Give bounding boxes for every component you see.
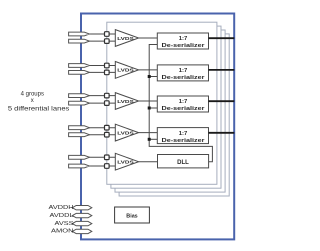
group rectangle 1 (front)	[107, 22, 217, 184]
pin CKp	[105, 155, 110, 160]
pin A4n	[105, 132, 110, 137]
junction dot at de-serializer 3 clock tap	[148, 107, 151, 110]
LVDS receiver U4	[115, 124, 138, 141]
svg-text:LVDS: LVDS	[117, 36, 134, 42]
pin A2p	[105, 63, 110, 68]
power pad AMON	[72, 229, 92, 233]
DLL	[158, 155, 209, 168]
wire pad A3p to LVDS A3 input	[88, 95, 115, 97]
svg-text:5 differential lanes: 5 differential lanes	[8, 106, 70, 112]
wire pad A4p to LVDS A4 input	[88, 127, 115, 129]
svg-text:De-serializer: De-serializer	[162, 106, 206, 112]
Bias block	[115, 207, 150, 223]
power pad AVSS	[72, 221, 92, 225]
clock stub to de-serializer 4	[149, 138, 157, 140]
svg-text:De-serializer: De-serializer	[162, 43, 206, 49]
svg-text:1:7: 1:7	[179, 36, 188, 42]
LVDS receiver U2	[115, 62, 138, 79]
bus line from de-serializer 2	[208, 69, 234, 71]
wire pad A4n to LVDS A4 input	[88, 134, 115, 136]
pin CKn	[105, 164, 110, 169]
pin A2n	[105, 70, 110, 75]
LVDS receiver U1	[115, 30, 138, 47]
svg-text:Bias: Bias	[126, 214, 137, 220]
svg-text:LVDS: LVDS	[117, 160, 134, 166]
clock distribution net from DLL output	[149, 45, 212, 162]
clock stub to de-serializer 3	[149, 107, 157, 109]
power pad AVDDH	[72, 206, 92, 210]
wire pad A3n to LVDS A3 input	[88, 102, 115, 104]
pad A3p	[69, 94, 90, 98]
wire pad A2p to LVDS A2 input	[88, 65, 115, 67]
de-serializer 1	[157, 33, 208, 49]
wire pad A1p to LVDS A1 input	[88, 33, 115, 35]
de-serializer 2	[157, 65, 208, 81]
pad A2p	[69, 64, 90, 68]
svg-text:LVDS: LVDS	[117, 130, 134, 136]
de-serializer 4	[157, 128, 208, 144]
bus line from de-serializer 3	[208, 100, 234, 102]
wire pad CKn to LVDS clock input	[88, 165, 115, 167]
power pad AVDDL	[72, 213, 92, 217]
pin A3p	[105, 93, 110, 98]
svg-text:AMON: AMON	[51, 229, 74, 235]
pad CKp	[69, 155, 90, 159]
svg-text:De-serializer: De-serializer	[162, 138, 206, 144]
wire LVDS clock output to DLL	[139, 161, 158, 163]
LVDS receiver U3	[115, 93, 138, 110]
junction dot at de-serializer 2 clock tap	[148, 75, 151, 78]
bus line from de-serializer 4	[208, 132, 234, 134]
wire pad A2n to LVDS A2 input	[88, 71, 115, 73]
svg-text:AVSS: AVSS	[55, 221, 74, 227]
svg-text:4 groups: 4 groups	[21, 91, 44, 97]
svg-text:1:7: 1:7	[179, 99, 188, 105]
pin A3n	[105, 101, 110, 106]
wire pad CKp to LVDS clock input	[88, 156, 115, 158]
wire LVDS A2 output to de-serializer 2	[139, 69, 158, 71]
svg-text:x: x	[31, 98, 34, 104]
group rectangle 2	[111, 26, 221, 188]
pad A1p	[69, 32, 90, 36]
wire LVDS A4 output to de-serializer 4	[139, 132, 158, 134]
wire pad A1n to LVDS A1 input	[88, 40, 115, 42]
bus line from de-serializer 1	[208, 37, 234, 39]
de-serializer 3	[157, 96, 208, 112]
wire LVDS A3 output to de-serializer 3	[139, 100, 158, 102]
svg-text:LVDS: LVDS	[117, 99, 134, 105]
pad A1n	[69, 39, 90, 43]
pad A4p	[69, 126, 90, 130]
pin A1n	[105, 39, 110, 44]
pin A1p	[105, 32, 110, 37]
svg-text:De-serializer: De-serializer	[162, 75, 206, 81]
svg-text:AVDDL: AVDDL	[50, 213, 74, 219]
chip boundary	[81, 14, 234, 240]
svg-text:LVDS: LVDS	[117, 68, 134, 74]
pad A4n	[69, 133, 90, 137]
svg-text:1:7: 1:7	[179, 131, 188, 137]
LVDS receiver U5 (clock)	[115, 153, 138, 170]
junction dot at de-serializer 4 clock tap	[148, 138, 151, 141]
group rectangle 3	[115, 30, 225, 192]
svg-text:1:7: 1:7	[179, 68, 188, 74]
pin A4p	[105, 125, 110, 130]
svg-text:DLL: DLL	[177, 160, 189, 166]
pad A3n	[69, 101, 90, 105]
wire LVDS A1 output to de-serializer 1	[139, 37, 158, 39]
svg-text:AVDDH: AVDDH	[49, 205, 74, 211]
pad A2n	[69, 71, 90, 75]
clock stub to de-serializer 2	[149, 76, 157, 78]
group rectangle 4 (back of stack)	[119, 34, 229, 196]
pad CKn	[69, 164, 90, 168]
